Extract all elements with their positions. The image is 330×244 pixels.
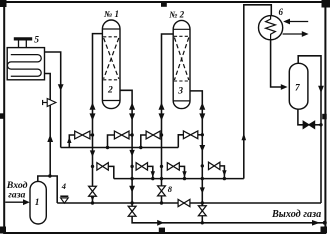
wire heater outlet to riser v1	[45, 52, 61, 148]
node v3/row-E	[130, 201, 133, 204]
valve C3	[167, 163, 179, 170]
node C3/v4	[160, 165, 163, 168]
separator B-1 shell	[30, 181, 46, 224]
coolant outlet wire	[283, 33, 302, 35]
node row B stub A3	[139, 146, 142, 149]
svg-text:8: 8	[168, 184, 173, 194]
valve C1	[97, 163, 108, 170]
arrow down C2 drop	[151, 171, 155, 177]
svg-text:4: 4	[61, 181, 66, 191]
arrow down C4 drop	[222, 170, 226, 176]
K-1 lower bed boundary	[103, 79, 119, 81]
flow arrow on row F	[157, 220, 164, 226]
valve A1	[75, 131, 90, 139]
row A wire valve A3	[141, 135, 146, 148]
v7 flow arrow down	[318, 86, 324, 93]
condenser X-6	[259, 16, 283, 40]
adsorber K-2 shell	[173, 20, 190, 108]
valve C2	[136, 163, 147, 170]
valve A3	[146, 131, 160, 139]
node row D C4	[223, 177, 226, 180]
riser v4 K-2 top	[162, 34, 174, 203]
wire separator 7 top to v7	[298, 56, 321, 203]
node row D v4	[160, 177, 163, 180]
K-1 top weld line	[102, 28, 120, 30]
valve A4	[183, 131, 197, 139]
K-1 upper bed boundary	[103, 36, 119, 38]
corner mark bottom-left	[0, 227, 6, 234]
corner mark top-right	[322, 0, 330, 8]
heater E-5 shell	[7, 48, 44, 80]
node row D v5	[201, 177, 204, 180]
K-2 bed cross	[174, 38, 188, 81]
node junction above separator	[48, 174, 51, 177]
node C2/v3	[130, 165, 133, 168]
valve on v5 lower	[198, 206, 206, 216]
svg-text:7: 7	[295, 84, 300, 94]
v4 flow arrow up	[159, 102, 165, 109]
valve on v3 lower	[128, 206, 136, 216]
svg-text:2: 2	[107, 85, 113, 96]
v2 flow arrow down	[90, 113, 96, 120]
node C1/v2	[91, 165, 94, 168]
riser v6 to condenser	[244, 5, 271, 179]
flow arrow down on v1	[58, 84, 64, 91]
riser v3 K-1 bottom	[120, 90, 132, 217]
valve C3 wire	[179, 166, 184, 178]
v5 flow arrow down 2	[199, 145, 205, 152]
v2 flow arrow down 3	[90, 196, 94, 202]
row A wire valve A2	[108, 135, 115, 148]
node C4/v5	[201, 164, 204, 167]
wire heater lower outlet to riser v0	[45, 74, 51, 177]
node A3/v4	[160, 133, 163, 136]
corner mark top-left	[0, 0, 7, 7]
riser v5 K-2 bottom	[190, 91, 202, 223]
v6 flow arrow up	[242, 133, 247, 140]
edge mark top	[161, 2, 167, 7]
valve C2 wire	[147, 166, 153, 178]
svg-text:1: 1	[35, 198, 40, 208]
v2 flow arrow up	[90, 102, 96, 109]
v4 flow arrow down	[159, 113, 165, 120]
node v4/row-E	[160, 201, 163, 204]
node A1/v2	[91, 133, 94, 136]
corner mark bottom-right	[321, 227, 328, 234]
K-1 bed cross	[104, 38, 119, 79]
row A wire valve A4	[178, 135, 183, 148]
adsorber K-1 shell	[102, 20, 120, 109]
valve C1 wire	[108, 166, 114, 178]
regeneration header row B	[61, 147, 179, 149]
v3 flow arrow down 1b	[129, 150, 134, 157]
node row D C3	[183, 177, 186, 180]
valve C4	[209, 162, 220, 169]
valve C4 wire	[220, 166, 225, 179]
K-2 top weld line	[173, 28, 190, 30]
node row D C2	[151, 177, 154, 180]
v5 flow arrow up	[199, 102, 205, 109]
heater 5 coil	[7, 55, 41, 77]
row A wire valve A1	[69, 135, 74, 148]
svg-text:№ 1: № 1	[103, 9, 119, 19]
valve 4 regulator	[60, 195, 68, 197]
riser v2 K-1 top	[93, 34, 103, 203]
node A4/v5	[201, 133, 204, 136]
svg-text:№ 2: № 2	[168, 10, 184, 20]
wire separator 7 bottom	[298, 109, 303, 125]
arrow down C3 drop	[182, 171, 186, 177]
outlet header row F	[132, 217, 325, 223]
K-1 bottom weld line	[102, 100, 120, 102]
v3 flow arrow down	[129, 113, 135, 120]
heater 5 top flange	[14, 37, 32, 40]
v5 flow arrow down 3	[200, 187, 205, 193]
valve on v2 lower	[89, 186, 97, 196]
v5 flow arrow down	[199, 113, 205, 120]
outlet arrow	[312, 220, 320, 226]
svg-text:Выход газа: Выход газа	[271, 209, 321, 220]
feed header row E	[57, 202, 321, 204]
node outlet on border	[323, 221, 327, 225]
edge mark right	[322, 114, 327, 120]
v3 flow arrow up	[129, 102, 135, 109]
v2 flow arrow down 2	[90, 150, 95, 157]
wire condenser to separator 7	[271, 40, 282, 87]
check valve on v0	[43, 102, 48, 104]
regeneration return header row D	[114, 178, 244, 180]
valve on separator 7 drain	[303, 121, 314, 128]
arrow up on A1 stub	[67, 137, 71, 143]
wire separator top to valve 4	[38, 176, 57, 203]
coolant inlet wire	[287, 21, 308, 23]
valve on row E	[178, 199, 190, 206]
node v7 junction	[319, 123, 322, 126]
node v5/row-E	[201, 201, 204, 204]
K-2 bottom weld line	[173, 100, 190, 102]
node row D v3	[130, 177, 133, 180]
svg-text:газа: газа	[8, 190, 25, 201]
K-2 upper bed boundary	[174, 35, 189, 37]
K-2 lower bed boundary	[174, 80, 189, 82]
edge mark bottom	[159, 228, 165, 233]
svg-text:3: 3	[177, 86, 183, 97]
edge mark left	[0, 113, 5, 119]
svg-text:5: 5	[34, 35, 39, 45]
node row B stub A2	[106, 146, 109, 149]
node v2/row-E	[91, 201, 94, 204]
node v5/row-F	[201, 221, 204, 224]
valve 8 on v4	[158, 186, 166, 196]
valve A2	[114, 131, 129, 139]
node A2/v3	[130, 133, 133, 136]
separator 7 shell	[289, 63, 308, 109]
inlet arrow	[5, 201, 24, 203]
v3 flow arrow down 2	[129, 186, 135, 193]
v0 flow arrow up	[47, 135, 53, 143]
svg-text:6: 6	[279, 7, 284, 17]
